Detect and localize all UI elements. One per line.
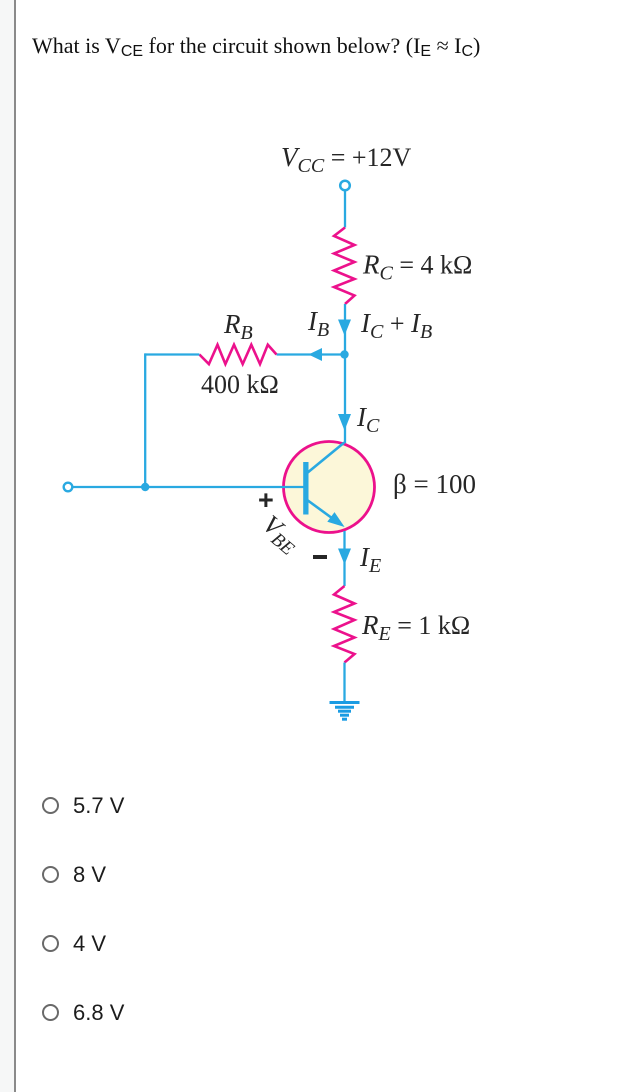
wire node to collector with Ic arrow (344, 355, 346, 443)
question title (32, 33, 480, 59)
wire left vertical down to base row (144, 353, 146, 487)
svg-text:400 kΩ: 400 kΩ (201, 370, 279, 399)
wire Re to ground (343, 663, 345, 702)
svg-text:IC + IB: IC + IB (360, 308, 432, 343)
left gray strip (0, 0, 14, 1092)
svg-text:β = 100: β = 100 (393, 469, 476, 499)
svg-text:VCC = +12V: VCC = +12V (281, 142, 412, 177)
wire Rc to node (344, 304, 346, 355)
transistor emitter lead (307, 500, 339, 523)
wire Vcc terminal to Rc (344, 190, 346, 228)
label minus sign (313, 555, 327, 559)
svg-text:RB: RB (223, 309, 253, 344)
option A 5.7 V (42, 792, 124, 818)
resistor Rb (199, 345, 276, 364)
transistor collector lead (307, 443, 345, 474)
arrow Ie (338, 549, 351, 565)
arrow Ic (338, 414, 351, 431)
svg-text:+: + (258, 485, 274, 515)
svg-text:RE = 1 kΩ: RE = 1 kΩ (361, 610, 470, 645)
left open terminal (64, 483, 73, 492)
transistor Q1 body (284, 442, 375, 533)
option D 6.8 V (42, 999, 124, 1025)
svg-text:IC: IC (356, 402, 380, 437)
wire Rb to left corner (145, 353, 199, 355)
ground (330, 703, 360, 720)
transistor base bar (303, 462, 308, 515)
wire base (73, 486, 305, 488)
svg-text:IB: IB (307, 306, 329, 341)
transistor emitter arrowhead (327, 512, 344, 527)
junction dot on base wire (141, 483, 149, 491)
svg-text:RC = 4 kΩ: RC = 4 kΩ (362, 250, 472, 285)
node junction dot (340, 350, 348, 358)
arrow Ic+Ib into node (338, 320, 351, 336)
resistor Rc (334, 228, 355, 305)
wire emitter down with Ie arrow (343, 531, 345, 586)
Vcc terminal (340, 181, 350, 191)
wire node to Rb with Ib arrow (277, 353, 346, 355)
svg-text:IE: IE (359, 542, 381, 577)
option B 8 V (42, 861, 106, 887)
resistor Re (334, 586, 355, 663)
option C 4 V (42, 930, 106, 956)
arrow Ib pointing left (309, 348, 323, 361)
left vertical border line (14, 0, 16, 1092)
